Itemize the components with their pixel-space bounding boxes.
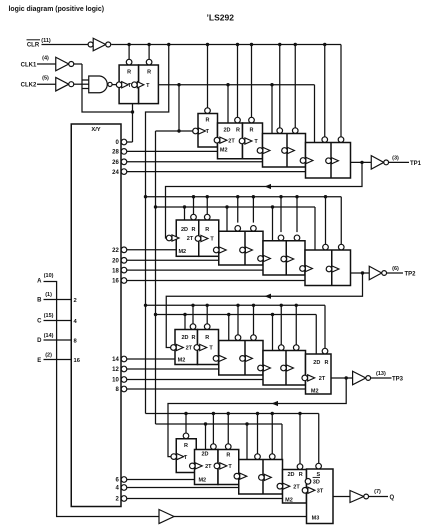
flip-flops FF14 FF15 row2 pair: [258, 235, 305, 275]
svg-text:R: R: [236, 127, 240, 133]
inverter U3 on CLK2: [56, 77, 89, 91]
X/Y tap outputs with bubbles: [112, 139, 127, 503]
flip-flop FF24 M2 row3 tail: [302, 348, 331, 394]
input CLR pin 11: [27, 38, 51, 49]
svg-text:(15): (15): [44, 313, 54, 319]
svg-text:12: 12: [112, 367, 119, 373]
wire CLR rail drops to R inputs: [127, 43, 326, 137]
flip-flop FF3 row1: [193, 108, 218, 147]
svg-text:CLR: CLR: [27, 43, 40, 49]
X/Y decoder block: [71, 124, 121, 507]
svg-text:20: 20: [112, 259, 119, 265]
svg-text:14: 14: [112, 357, 119, 363]
svg-text:16: 16: [74, 358, 81, 364]
svg-text:’LS292: ’LS292: [207, 14, 235, 23]
buffer on A select line: [159, 510, 174, 524]
svg-text:(4): (4): [42, 56, 49, 62]
svg-text:M2: M2: [178, 358, 186, 364]
svg-text:(10): (10): [44, 273, 54, 279]
wire clock T rail from FF2 output: [158, 83, 314, 142]
svg-text:28: 28: [112, 150, 119, 156]
flip-flops FF16 FF17 row2 pair: [300, 244, 351, 285]
flip-flop FF27 row4: [214, 444, 239, 485]
part number LS292: [207, 14, 235, 23]
svg-text:CLK1: CLK1: [21, 63, 37, 69]
flip-flops FF20 FF21 row3 pair: [213, 335, 263, 375]
svg-text:R: R: [299, 472, 303, 478]
wire row2 output to TP2 and feedback: [166, 271, 369, 347]
svg-text:X/Y: X/Y: [91, 127, 100, 133]
svg-text:(13): (13): [376, 371, 386, 377]
svg-text:(7): (7): [374, 489, 381, 495]
svg-text:R: R: [206, 118, 210, 124]
flip-flop FF26 M2 row4: [190, 444, 219, 485]
svg-text:(11): (11): [41, 38, 51, 44]
flip-flops FF12 FF13 row2 pair: [213, 226, 263, 265]
input E pin 2: [37, 352, 71, 363]
wire row3 clock bus: [156, 313, 317, 354]
wire from AND gate / CLK1 vertical: [82, 64, 134, 114]
svg-text:22: 22: [112, 248, 119, 254]
svg-text:(6): (6): [392, 266, 399, 272]
svg-text:M3: M3: [312, 515, 320, 521]
svg-text:2D: 2D: [181, 335, 188, 341]
wire feedback row1 to row2 2T: [166, 161, 372, 238]
svg-text:(3): (3): [392, 155, 399, 161]
svg-text:TP2: TP2: [405, 272, 417, 278]
flip-flop FF31 M3 output stage: [302, 463, 333, 523]
wire clock to FF3 T and T-chain down: [154, 85, 193, 424]
wire row4 R bus: [146, 412, 319, 464]
svg-text:2: 2: [74, 298, 77, 304]
flip-flop FF10 M2 row2: [166, 214, 198, 256]
flip-flops FF22 FF23 row3 pair: [258, 345, 306, 385]
svg-text:R: R: [205, 335, 209, 341]
svg-text:24: 24: [112, 170, 119, 176]
svg-text:E: E: [37, 358, 41, 364]
svg-text:(5): (5): [42, 76, 49, 82]
wire row3 M2 tail output to TP3: [331, 377, 353, 379]
flip-flop FF25 row4: [171, 433, 196, 472]
svg-text:TP3: TP3: [392, 377, 404, 383]
svg-text:2T: 2T: [205, 464, 212, 470]
title: [9, 4, 105, 13]
svg-text:R: R: [205, 227, 209, 233]
svg-text:B: B: [37, 298, 42, 304]
svg-text:26: 26: [112, 160, 119, 166]
svg-text:(2): (2): [45, 352, 52, 358]
svg-text:10: 10: [112, 378, 119, 384]
AND gate U4 clock gating: [82, 76, 116, 93]
svg-text:M2: M2: [285, 497, 293, 503]
svg-text:M2: M2: [198, 478, 206, 484]
wire CLR rail: [42, 45, 342, 138]
flip-flop FF2 (second divide-by-2): [132, 59, 159, 103]
svg-text:2D: 2D: [201, 451, 208, 457]
input CLK1 pin 4: [21, 56, 56, 69]
input D pin 14: [37, 333, 71, 344]
flip-flops FF28 FF29 row4 pair: [234, 454, 282, 494]
svg-text:C: C: [37, 319, 42, 325]
svg-text:R: R: [325, 360, 329, 366]
svg-text:TP1: TP1: [410, 161, 422, 167]
svg-text:CLK2: CLK2: [21, 83, 37, 89]
wire row2 clock bus: [156, 205, 316, 250]
svg-text:2D: 2D: [313, 360, 320, 366]
flip-flop FF1 (first divide-by-2): [116, 59, 138, 103]
wire tap0 riser to FF pair bottom: [127, 104, 133, 142]
svg-text:R: R: [192, 335, 196, 341]
svg-text:2D: 2D: [223, 127, 230, 133]
inverter U2 on CLK1: [56, 57, 82, 71]
svg-text:R: R: [250, 127, 254, 133]
svg-text:16: 16: [112, 279, 119, 285]
svg-text:Q: Q: [390, 495, 395, 501]
svg-text:2D: 2D: [181, 227, 188, 233]
svg-text:M2: M2: [220, 147, 228, 153]
svg-text:2T: 2T: [228, 138, 235, 144]
flip-flop FF4 M2 row1: [214, 117, 242, 158]
svg-text:2D: 2D: [287, 472, 294, 478]
flip-flops FF8 FF9 row1 pair: [300, 137, 350, 178]
wire R-chain from CLR rail down left side: [144, 45, 169, 414]
wire row4 clock bus: [156, 422, 283, 469]
svg-text:3T: 3T: [317, 488, 324, 494]
svg-text:R: R: [192, 227, 196, 233]
svg-text:R: R: [184, 443, 188, 449]
wire X/Y tap lines: [127, 151, 306, 498]
svg-text:R: R: [226, 452, 230, 458]
inverter TP3 output pin 13: [353, 371, 404, 385]
svg-text:2T: 2T: [293, 484, 300, 490]
svg-text:2T: 2T: [319, 376, 326, 382]
svg-text:D: D: [37, 338, 42, 344]
flip-flops FF6 FF7 row1 pair: [257, 128, 305, 167]
flip-flop FF5 row1: [239, 117, 262, 158]
buffer Q output pin 7: [350, 489, 395, 502]
flip-flop FF30 M2 row4 tail: [277, 464, 306, 503]
wire row3 R bus: [146, 304, 326, 349]
input A pin 10: [37, 273, 54, 284]
flip-flop FF19 row3: [194, 324, 219, 365]
svg-text:R: R: [127, 69, 131, 75]
inverter U1 on CLR: [88, 38, 111, 51]
svg-text:(1): (1): [45, 292, 52, 298]
svg-text:M2: M2: [178, 249, 186, 255]
svg-text:2T: 2T: [187, 236, 194, 242]
svg-text:18: 18: [112, 268, 119, 274]
svg-text:3D: 3D: [313, 479, 320, 485]
wire M3 output to Q buffer: [333, 496, 350, 498]
inverter TP2 output pin 6: [369, 266, 416, 280]
flip-flop FF11 row2: [195, 214, 219, 256]
wire row2 R bus: [146, 195, 342, 244]
flip-flop FF18 M2 row3: [171, 324, 198, 365]
inverter TP1 output pin 3: [371, 155, 421, 169]
svg-text:(14): (14): [44, 333, 54, 339]
wire A input through buffer to M3: [44, 282, 307, 517]
input C pin 15: [37, 313, 71, 324]
X/Y weight labels: [74, 298, 81, 364]
input CLK2 pin 5: [21, 76, 56, 89]
svg-text:logic diagram (positive logic): logic diagram (positive logic): [9, 4, 105, 13]
svg-text:R: R: [147, 69, 151, 75]
svg-text:A: A: [37, 279, 42, 285]
svg-text:M2: M2: [311, 388, 319, 394]
input B pin 1: [37, 292, 71, 304]
svg-text:2T: 2T: [186, 346, 193, 352]
wire row3 output to TP3 and feedback to row4 T: [168, 376, 348, 456]
